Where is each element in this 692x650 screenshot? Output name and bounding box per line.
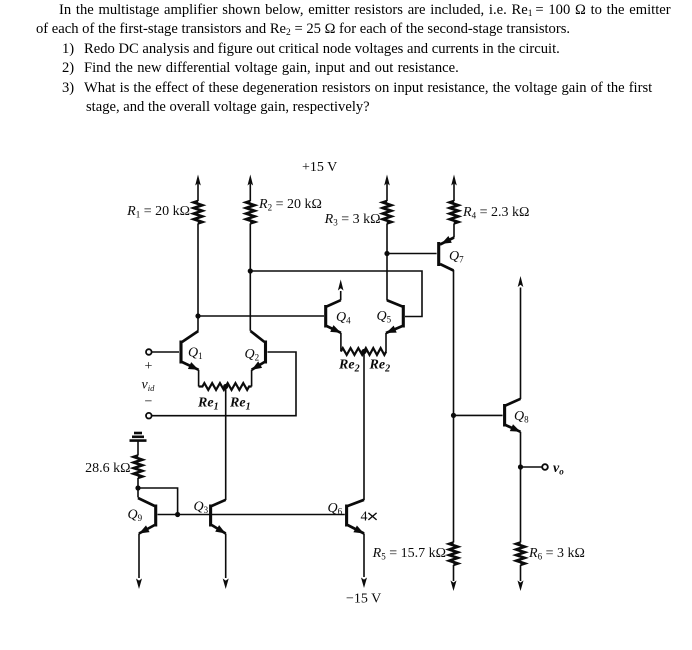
wire Q2 emitter to Re1: [251, 370, 253, 387]
svg-text:Q3: Q3: [194, 500, 209, 516]
Q1 label: [188, 346, 203, 362]
resistor R6: [516, 543, 524, 565]
R3 value label: [324, 212, 381, 228]
4X label: [361, 510, 368, 525]
node C (R3/Q7 base junction): [384, 251, 389, 256]
wire node A to Q4 base: [198, 315, 324, 317]
Q4 label: [336, 310, 351, 326]
wire Q3 emitter to -15V arrow: [223, 534, 229, 590]
resistor Re2 left: [341, 348, 364, 355]
svg-text:−: −: [145, 395, 153, 410]
svg-text:Q8: Q8: [514, 409, 529, 425]
svg-text:Q7: Q7: [449, 249, 464, 265]
svg-text:R4 = 2.3 kΩ: R4 = 2.3 kΩ: [462, 205, 529, 221]
transistor Q2 (NPN mirrored): [251, 331, 266, 370]
svg-text:Re2: Re2: [338, 358, 360, 375]
svg-text:Q1: Q1: [188, 346, 203, 362]
svg-text:−15 V: −15 V: [346, 592, 381, 607]
svg-text:Q5: Q5: [377, 309, 392, 325]
resistor R4: [450, 201, 458, 223]
Re2 left label: [338, 358, 360, 375]
svg-text:Re1: Re1: [229, 396, 251, 413]
plus input terminal: [146, 349, 152, 355]
wire R1 down to Q1 collector: [197, 223, 199, 330]
resistor 28.6k: [134, 456, 142, 478]
transistor Q5 (NPN mirrored): [386, 300, 403, 333]
wire R2 down to Q2 collector: [249, 223, 251, 330]
svg-text:R2 = 20 kΩ: R2 = 20 kΩ: [258, 197, 322, 213]
svg-text:vo: vo: [553, 461, 564, 477]
wire plus terminal to Q1 base: [152, 351, 179, 353]
svg-text:4: 4: [361, 510, 368, 525]
+15 V label: [302, 160, 337, 175]
wire node G to mirror bases: [138, 488, 178, 515]
vo terminal circle: [542, 464, 548, 470]
Q8 label: [514, 409, 529, 425]
wire Re1 common down to Q3 collector: [225, 387, 227, 501]
resistor R1: [194, 201, 202, 223]
supply arrow R2 top: [248, 175, 254, 202]
-15V label: [346, 592, 381, 607]
minus input terminal: [146, 413, 152, 419]
minus sign: [145, 395, 153, 410]
wire node B to Q5 base loop: [250, 271, 422, 317]
supply arrow R1 top: [195, 175, 201, 202]
Re2 right label: [369, 358, 391, 375]
R2 value label: [258, 197, 322, 213]
node E (Re2 common): [361, 349, 366, 354]
resistor Re2 right: [364, 348, 386, 355]
28.6k value label: [85, 461, 130, 476]
svg-text:R5 = 15.7 kΩ: R5 = 15.7 kΩ: [372, 546, 446, 562]
svg-text:+15 V: +15 V: [302, 160, 337, 175]
Q5 label: [377, 309, 392, 325]
wire to vo terminal: [521, 466, 542, 468]
wire 28.6k down to node G: [137, 478, 139, 498]
wire ground to 28.6k resistor: [137, 442, 139, 456]
problem statement text: [59, 1, 671, 22]
transistor Q7 (PNP): [439, 236, 454, 271]
Re1 right label: [229, 396, 251, 413]
svg-text:R1 = 20 kΩ: R1 = 20 kΩ: [126, 204, 190, 220]
R5 value label: [372, 546, 446, 562]
node A (R1/Q4 base junction): [195, 313, 200, 318]
resistor Re1 left: [199, 383, 226, 390]
node G (28.6k / Q9 collector / base wire): [135, 485, 140, 490]
vid label: [142, 378, 156, 394]
wire R3 down to Q5 collector: [386, 223, 388, 300]
wire R5 to -15V arrow: [451, 565, 457, 591]
wire Q8 emitter down: [520, 432, 522, 543]
resistor R5: [449, 543, 457, 565]
R6 value label: [528, 546, 585, 562]
svg-text:R3 = 3 kΩ: R3 = 3 kΩ: [324, 212, 381, 228]
ground: [130, 433, 147, 441]
Q9 label: [128, 508, 143, 524]
wire node C to Q7 base: [387, 253, 437, 255]
resistor Re1 right: [226, 383, 252, 390]
transistor Q4 (NPN): [326, 300, 341, 333]
wire Q1 emitter to Re1: [198, 370, 200, 387]
Q7 label: [449, 249, 464, 265]
resistor R2: [246, 201, 254, 223]
Re1 left label: [197, 396, 219, 413]
svg-text:+: +: [145, 359, 153, 374]
base rail Q9-Q3-Q6: [158, 514, 345, 516]
transistor Q3 (NPN): [211, 500, 226, 534]
wire node D to Q8 base: [454, 414, 503, 416]
transistor Q9 (NPN left-facing, diode-connected): [138, 498, 156, 534]
supply arrow R4 top: [451, 175, 457, 202]
Q2 label: [245, 347, 260, 363]
wire Q6 emitter to -15V arrow: [361, 534, 367, 589]
wire Q4 emitter to Re2: [340, 333, 342, 352]
svg-text:vid: vid: [142, 378, 156, 394]
transistor Q6 (NPN): [347, 500, 364, 534]
Q3 label: [194, 500, 209, 516]
wire R4 down to Q7 emitter: [453, 223, 455, 237]
wire R6 to -15V arrow: [518, 565, 524, 591]
node F (Re1 common): [223, 384, 228, 389]
wire Q9 emitter to -15V arrow: [136, 534, 142, 590]
svg-text:28.6 kΩ: 28.6 kΩ: [85, 461, 130, 476]
plus sign: [145, 359, 153, 374]
Q6 label: [328, 501, 343, 517]
wire minus terminal to Q2 base loop: [152, 352, 296, 416]
wire Q5 emitter to Re2: [385, 333, 387, 352]
svg-text:Q2: Q2: [245, 347, 260, 363]
node B (R2/Q5 base junction): [248, 268, 253, 273]
svg-text:Re1: Re1: [197, 396, 219, 413]
svg-text:Q4: Q4: [336, 310, 351, 326]
wire Q8 collector up to supply arrow: [518, 276, 524, 399]
resistor R3: [383, 201, 391, 223]
R1 value label: [126, 204, 190, 220]
node vo: [518, 464, 523, 469]
svg-text:Re2: Re2: [369, 358, 391, 375]
svg-text:R6 = 3 kΩ: R6 = 3 kΩ: [528, 546, 585, 562]
svg-text:Q9: Q9: [128, 508, 143, 524]
node D (Q7 collector / Q8 base): [451, 413, 456, 418]
supply arrow R3 top: [384, 175, 390, 202]
svg-text:Q6: Q6: [328, 501, 343, 517]
vo label: [553, 461, 564, 477]
wire Re2 common down to Q6 collector: [363, 352, 365, 501]
wire Q4 collector to supply arrow: [338, 280, 344, 301]
R4 value label: [462, 205, 529, 221]
transistor Q8 (NPN): [505, 399, 521, 432]
wire Q7 collector down to R5: [453, 270, 455, 543]
transistor Q1 (NPN): [181, 331, 199, 370]
node H (base rail junction): [175, 512, 180, 517]
